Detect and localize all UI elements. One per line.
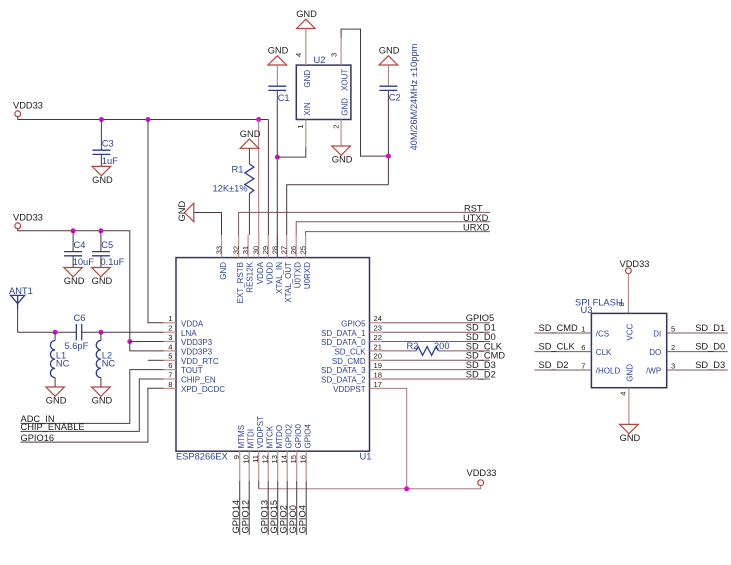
node junction VDDPST rail bbox=[404, 486, 409, 491]
wire net SD_D2 bbox=[382, 378, 490, 380]
svg-text:/WP: /WP bbox=[646, 366, 661, 375]
ground GND above R1 bbox=[240, 129, 261, 149]
svg-text:SD_CMD: SD_CMD bbox=[539, 323, 579, 333]
svg-text:12: 12 bbox=[261, 455, 270, 463]
pin 29 VDDD (U1 top) bbox=[261, 235, 275, 285]
wire VDDA riser to pin 1 bbox=[148, 120, 164, 323]
svg-text:VDDD: VDDD bbox=[266, 262, 275, 285]
svg-text:MTDI: MTDI bbox=[247, 429, 256, 449]
svg-text:XPD_DCDC: XPD_DCDC bbox=[181, 385, 225, 394]
svg-text:GND: GND bbox=[92, 396, 113, 406]
svg-text:CHIP_ENABLE: CHIP_ENABLE bbox=[21, 422, 85, 432]
svg-text:10: 10 bbox=[242, 455, 251, 463]
power port VDD33 (bottom) bbox=[467, 468, 497, 485]
wire VDD_RTC stub pin 5 bbox=[148, 359, 164, 361]
svg-text:ESP8266EX: ESP8266EX bbox=[176, 452, 228, 462]
capacitor C2 bbox=[379, 65, 400, 185]
svg-text:16: 16 bbox=[299, 455, 308, 463]
svg-text:GND: GND bbox=[625, 364, 634, 382]
svg-text:SD_DATA_0: SD_DATA_0 bbox=[321, 338, 366, 347]
inductor L2 bbox=[96, 332, 115, 387]
pin 1 XIN (U2 bottom-left) bbox=[296, 102, 312, 147]
pin 3 /WP (U3 right), net SD_D3 bbox=[646, 360, 728, 376]
wire VDD3P3 drop to pin 4 bbox=[130, 342, 164, 351]
pin 7 /HOLD (U3 left), net SD_D2 bbox=[535, 360, 621, 376]
svg-text:11: 11 bbox=[251, 455, 260, 463]
svg-text:2: 2 bbox=[168, 324, 172, 333]
wire pin 11 drop to rail bbox=[258, 481, 260, 489]
svg-text:XIN: XIN bbox=[303, 102, 312, 116]
svg-text:U0RXD: U0RXD bbox=[303, 262, 312, 289]
wire net GPIO4 bbox=[305, 481, 307, 535]
wire riser to pin 30 bbox=[258, 120, 260, 236]
wire XOUT jog to C2 bbox=[341, 29, 388, 156]
wire net SD_CMD bbox=[382, 359, 490, 361]
ground GND below U2 pin 2 bbox=[332, 146, 353, 165]
svg-text:GPIO2: GPIO2 bbox=[285, 423, 294, 448]
svg-text:/HOLD: /HOLD bbox=[596, 366, 621, 375]
svg-text:21: 21 bbox=[374, 342, 382, 351]
svg-text:SD_CMD: SD_CMD bbox=[332, 357, 366, 366]
resistor R1 12K bbox=[213, 148, 254, 235]
capacitor C4 bbox=[64, 231, 94, 268]
svg-text:8: 8 bbox=[617, 302, 626, 306]
svg-text:EXT_RSTB: EXT_RSTB bbox=[236, 262, 245, 303]
wire C2 to XTAL_OUT pin 27 bbox=[287, 185, 389, 235]
svg-text:CHIP_EN: CHIP_EN bbox=[181, 376, 216, 385]
svg-text:4: 4 bbox=[294, 53, 303, 57]
wire VDD33 to U3 VCC bbox=[627, 274, 629, 314]
svg-text:VCC: VCC bbox=[625, 323, 634, 340]
svg-text:GND: GND bbox=[340, 98, 349, 116]
pin 15 GPIO0 (U1 bottom) bbox=[289, 423, 303, 481]
svg-text:GPIO14: GPIO14 bbox=[231, 500, 241, 534]
svg-text:26: 26 bbox=[289, 246, 298, 254]
wire net GPIO12 bbox=[248, 481, 250, 535]
wire net SD_D1 bbox=[382, 331, 490, 333]
svg-text:R1: R1 bbox=[232, 165, 244, 175]
node junction VDDA riser tap bbox=[146, 117, 151, 122]
svg-text:C1: C1 bbox=[278, 93, 290, 103]
pin 33 GND (U1 top) bbox=[215, 235, 229, 280]
svg-text:29: 29 bbox=[261, 246, 270, 254]
pin 11 VDDPST (U1 bottom) bbox=[251, 416, 265, 481]
svg-text:13: 13 bbox=[270, 455, 279, 463]
pin 2 LNA (U1 left) bbox=[164, 324, 198, 338]
wire VDDPST bottom rail bbox=[259, 486, 481, 489]
inductor L1 bbox=[50, 332, 69, 387]
svg-text:SD_D3: SD_D3 bbox=[695, 360, 725, 370]
svg-text:C4: C4 bbox=[74, 240, 86, 250]
svg-text:12K±1%: 12K±1% bbox=[213, 183, 248, 193]
svg-text:GND: GND bbox=[379, 46, 400, 56]
node junction C2/XOUT bbox=[386, 154, 391, 159]
svg-text:MTMS: MTMS bbox=[237, 425, 246, 449]
svg-text:VDD_RTC: VDD_RTC bbox=[181, 357, 219, 366]
svg-text:SD_DATA_3: SD_DATA_3 bbox=[321, 366, 366, 375]
svg-text:GPIO16: GPIO16 bbox=[21, 433, 55, 443]
svg-text:GND: GND bbox=[92, 175, 113, 185]
pin 7 CHIP_EN (U1 left) bbox=[164, 370, 216, 384]
wire net GPIO0 bbox=[296, 481, 298, 535]
svg-text:7: 7 bbox=[581, 361, 585, 370]
svg-text:VDD3P3: VDD3P3 bbox=[181, 338, 213, 347]
svg-text:VDD33: VDD33 bbox=[13, 100, 43, 110]
svg-text:NC: NC bbox=[102, 359, 116, 369]
pin 32 EXT_RSTB (U1 top) bbox=[232, 235, 246, 303]
pin 2 DO (U3 right), net SD_D0 bbox=[649, 341, 728, 357]
svg-text:2: 2 bbox=[671, 343, 675, 352]
wire pin 26 UTXD riser bbox=[296, 222, 490, 235]
pin 30 VDDA (U1 top) bbox=[252, 235, 266, 284]
svg-text:6: 6 bbox=[581, 343, 585, 352]
svg-text:32: 32 bbox=[232, 246, 241, 254]
svg-text:CLK: CLK bbox=[596, 348, 612, 357]
pin 4 GND (U2 top-left) bbox=[294, 29, 312, 88]
svg-text:U1: U1 bbox=[360, 452, 372, 462]
svg-text:GND: GND bbox=[303, 70, 312, 88]
pin 19 SD_DATA_3 (U1 right) bbox=[321, 361, 382, 375]
pin 8 VCC (U3 top) bbox=[617, 302, 634, 340]
svg-text:28: 28 bbox=[270, 246, 279, 254]
antenna ANT1 bbox=[9, 286, 33, 309]
svg-text:VDDPST: VDDPST bbox=[333, 385, 366, 394]
svg-text:27: 27 bbox=[280, 246, 289, 254]
svg-text:GPIO0: GPIO0 bbox=[288, 505, 298, 533]
svg-text:VDD33: VDD33 bbox=[467, 468, 497, 478]
svg-text:SD_D2: SD_D2 bbox=[539, 360, 569, 370]
pin 23 SD_DATA_1 (U1 right) bbox=[321, 324, 382, 338]
pin 13 MTDO (U1 bottom) bbox=[270, 425, 284, 481]
op-amp U3 SPI FLASH body bbox=[575, 297, 667, 387]
ground GND (left-pointing, pin 33) bbox=[177, 201, 194, 222]
ground GND below U3 bbox=[620, 424, 641, 443]
pin 4 VDD3P3 (U1 left) bbox=[164, 342, 213, 356]
wire XIN to C1 bbox=[277, 147, 306, 157]
svg-text:17: 17 bbox=[374, 380, 382, 389]
svg-text:25: 25 bbox=[299, 246, 308, 254]
svg-text:GND: GND bbox=[46, 396, 67, 406]
pin 6 TOUT (U1 left) bbox=[164, 361, 203, 375]
capacitor C3 bbox=[92, 120, 118, 167]
svg-text:GND: GND bbox=[240, 129, 261, 139]
node junction C4 tap bbox=[71, 228, 76, 233]
svg-text:1: 1 bbox=[296, 125, 305, 129]
capacitor C1 bbox=[268, 65, 289, 258]
svg-text:MTDO: MTDO bbox=[275, 425, 284, 449]
node junction C5 tap bbox=[98, 228, 103, 233]
net GPIO16 bbox=[21, 388, 164, 443]
svg-text:5: 5 bbox=[671, 324, 675, 333]
pin 18 SD_DATA_2 (U1 right) bbox=[321, 370, 382, 384]
svg-text:TOUT: TOUT bbox=[181, 366, 203, 375]
svg-text:6: 6 bbox=[168, 361, 172, 370]
svg-text:GPIO4: GPIO4 bbox=[304, 423, 313, 448]
pin 3 VDD3P3 (U1 left) bbox=[164, 333, 213, 347]
pin 31 RES12K (U1 top) bbox=[241, 235, 255, 293]
node junction pin3 tap bbox=[127, 339, 132, 344]
svg-text:5: 5 bbox=[168, 352, 172, 361]
wire VDD33 left rail bbox=[18, 229, 130, 342]
svg-text:U2: U2 bbox=[314, 55, 326, 65]
svg-text:24: 24 bbox=[374, 314, 382, 323]
wire net GPIO5 bbox=[382, 322, 490, 324]
ground GND below L2 bbox=[92, 387, 113, 406]
svg-text:VDDA: VDDA bbox=[256, 261, 265, 284]
svg-text:GND: GND bbox=[268, 46, 289, 56]
pin 3 XOUT (U2 top-right) bbox=[329, 38, 349, 91]
pin 24 GPIO5 (U1 right) bbox=[341, 314, 382, 328]
svg-text:0.1uF: 0.1uF bbox=[101, 257, 125, 267]
svg-text:C6: C6 bbox=[74, 313, 86, 323]
svg-text:SD_DATA_1: SD_DATA_1 bbox=[321, 329, 366, 338]
svg-text:3: 3 bbox=[329, 53, 338, 57]
svg-text:GPIO2: GPIO2 bbox=[278, 505, 288, 533]
svg-text:8: 8 bbox=[168, 380, 172, 389]
crystal U2 body bbox=[296, 55, 351, 120]
ground GND below C3 bbox=[92, 166, 113, 185]
svg-text:4: 4 bbox=[168, 342, 172, 351]
svg-text:MTCK: MTCK bbox=[266, 425, 275, 448]
svg-text:30: 30 bbox=[252, 246, 261, 254]
pin 4 GND (U3 bottom) bbox=[619, 364, 635, 425]
pin 9 MTMS (U1 bottom) bbox=[232, 425, 246, 481]
svg-text:SD_CLK: SD_CLK bbox=[539, 341, 576, 351]
svg-text:C2: C2 bbox=[389, 93, 401, 103]
svg-text:31: 31 bbox=[241, 246, 250, 254]
pin 28 XTAL_IN (U1 top) bbox=[270, 235, 284, 294]
power port VDD33 (left) bbox=[13, 212, 43, 228]
ground GND below C4 bbox=[64, 268, 85, 287]
svg-text:ANT1: ANT1 bbox=[9, 286, 33, 296]
svg-text:RES12K: RES12K bbox=[246, 261, 255, 292]
svg-text:GPIO13: GPIO13 bbox=[259, 500, 269, 534]
svg-text:R2: R2 bbox=[407, 341, 419, 351]
pin 22 SD_DATA_0 (U1 right) bbox=[321, 333, 382, 347]
svg-text:GPIO12: GPIO12 bbox=[240, 500, 250, 534]
svg-text:GND: GND bbox=[92, 276, 113, 286]
svg-text:22: 22 bbox=[374, 333, 382, 342]
pin 27 XTAL_OUT (U1 top) bbox=[280, 235, 294, 303]
node junction L1 tap bbox=[53, 330, 58, 335]
svg-text:GPIO5: GPIO5 bbox=[341, 319, 366, 328]
svg-text:1: 1 bbox=[168, 314, 172, 323]
wire riser to pin 29 bbox=[267, 120, 269, 236]
node junction C1/XIN bbox=[275, 155, 280, 160]
wire net GPIO14 bbox=[239, 481, 241, 535]
resistor R2 200 bbox=[416, 347, 439, 356]
svg-text:DO: DO bbox=[649, 348, 661, 357]
capacitor C5 bbox=[92, 231, 125, 268]
svg-text:SD_D2: SD_D2 bbox=[466, 369, 496, 379]
svg-text:23: 23 bbox=[374, 324, 382, 333]
node junction C3 tap bbox=[99, 117, 104, 122]
wire VDDPST pin 17 to rail bbox=[382, 388, 407, 488]
svg-text:33: 33 bbox=[215, 246, 224, 254]
ground GND below C5 bbox=[92, 268, 113, 287]
svg-text:GND: GND bbox=[620, 433, 641, 443]
wire net GPIO13 bbox=[267, 481, 269, 535]
svg-text:URXD: URXD bbox=[463, 223, 490, 233]
svg-text:DI: DI bbox=[653, 329, 661, 338]
pin 6 CLK (U3 left), net SD_CLK bbox=[535, 341, 613, 357]
svg-text:40M/26M/24MHz ±10ppm: 40M/26M/24MHz ±10ppm bbox=[409, 43, 419, 150]
svg-text:10uF: 10uF bbox=[73, 257, 95, 267]
pin 5 VDD_RTC (U1 left) bbox=[164, 352, 219, 366]
svg-text:GPIO0: GPIO0 bbox=[294, 423, 303, 448]
svg-text:C3: C3 bbox=[102, 138, 114, 148]
pin 26 U0TXD (U1 top) bbox=[289, 235, 303, 288]
wire VDD33 top rail bbox=[18, 117, 269, 120]
svg-text:GND: GND bbox=[296, 9, 317, 19]
svg-text:SD_CLK: SD_CLK bbox=[334, 348, 366, 357]
pin 20 SD_CMD (U1 right) bbox=[332, 352, 382, 366]
svg-text:15: 15 bbox=[289, 455, 298, 463]
power port VDD33 (top left) bbox=[13, 100, 43, 116]
pin 16 GPIO4 (U1 bottom) bbox=[299, 423, 313, 481]
pin 8 XPD_DCDC (U1 left) bbox=[164, 380, 226, 394]
svg-text:20: 20 bbox=[374, 352, 382, 361]
pin 25 U0RXD (U1 top) bbox=[299, 235, 313, 289]
wire pin 25 URXD riser bbox=[306, 232, 490, 235]
svg-text:GND: GND bbox=[332, 155, 353, 165]
ground GND below L1 bbox=[46, 387, 67, 406]
svg-text:GND: GND bbox=[177, 201, 187, 222]
svg-text:SD_DATA_2: SD_DATA_2 bbox=[321, 376, 366, 385]
svg-text:1uF: 1uF bbox=[102, 156, 118, 166]
wire net SD_D3 bbox=[382, 369, 490, 371]
wire GND to pin 33 bbox=[194, 213, 222, 236]
svg-text:1: 1 bbox=[581, 324, 585, 333]
svg-text:C5: C5 bbox=[101, 240, 113, 250]
svg-text:XOUT: XOUT bbox=[340, 69, 349, 91]
svg-text:7: 7 bbox=[168, 370, 172, 379]
svg-text:VDD33: VDD33 bbox=[13, 212, 43, 222]
svg-text:LNA: LNA bbox=[181, 329, 197, 338]
capacitor C6 bbox=[65, 313, 89, 351]
svg-text:VDDPST: VDDPST bbox=[256, 416, 265, 449]
wire net GPIO15 bbox=[277, 481, 279, 535]
power port VDD33 (U3) bbox=[620, 259, 650, 274]
op-amp U1 ESP8266EX body bbox=[176, 258, 371, 462]
net ADC_IN bbox=[21, 370, 164, 425]
svg-text:200: 200 bbox=[434, 341, 450, 351]
svg-text:U0TXD: U0TXD bbox=[294, 262, 303, 288]
svg-text:SD_D0: SD_D0 bbox=[695, 341, 725, 351]
node junction pin30 riser tap bbox=[256, 117, 261, 122]
svg-text:9: 9 bbox=[232, 455, 241, 459]
svg-text:UTXD: UTXD bbox=[463, 213, 489, 223]
pin 5 DI (U3 right), net SD_D1 bbox=[653, 323, 728, 339]
node junction L2/C6 tap bbox=[98, 330, 103, 335]
pin 2 GND (U2 bottom-right) bbox=[331, 98, 349, 146]
wire ANT1 feed to LNA pin 2 bbox=[18, 309, 76, 332]
svg-text:3: 3 bbox=[671, 361, 675, 370]
svg-text:5.6pF: 5.6pF bbox=[65, 341, 89, 351]
wire VDD3P3 to pin 3 bbox=[130, 341, 164, 343]
svg-text:VDD3P3: VDD3P3 bbox=[181, 348, 213, 357]
svg-text:U3: U3 bbox=[581, 305, 593, 315]
svg-text:GND: GND bbox=[64, 276, 85, 286]
svg-text:GND: GND bbox=[219, 262, 228, 280]
svg-text:SD_D1: SD_D1 bbox=[695, 323, 725, 333]
svg-text:3: 3 bbox=[168, 333, 172, 342]
svg-text:14: 14 bbox=[280, 455, 289, 463]
wire net GPIO2 bbox=[286, 481, 288, 535]
svg-text:GPIO15: GPIO15 bbox=[269, 500, 279, 534]
pin 21 SD_CLK (U1 right) bbox=[334, 342, 382, 356]
svg-text:XTAL_IN: XTAL_IN bbox=[275, 262, 284, 294]
svg-text:XTAL_OUT: XTAL_OUT bbox=[284, 262, 293, 303]
pin 14 GPIO2 (U1 bottom) bbox=[280, 423, 294, 481]
net CHIP_ENABLE bbox=[21, 379, 164, 432]
pin 1 /CS (U3 left), net SD_CMD bbox=[535, 323, 610, 339]
pin 10 MTDI (U1 bottom) bbox=[242, 429, 256, 481]
svg-text:VDDA: VDDA bbox=[181, 319, 204, 328]
wire pin 32 RST riser bbox=[239, 212, 490, 235]
pin 17 VDDPST (U1 right) bbox=[333, 380, 382, 394]
wire SD_CLK with resistor R2 bbox=[382, 341, 490, 355]
wire net SD_D0 bbox=[382, 341, 490, 343]
pin 1 VDDA (U1 left) bbox=[164, 314, 204, 328]
ground GND above U2 pin 4 bbox=[296, 9, 317, 29]
svg-text:4: 4 bbox=[619, 392, 628, 396]
ground GND above C2 bbox=[379, 46, 400, 66]
svg-text:19: 19 bbox=[374, 361, 382, 370]
svg-text:18: 18 bbox=[374, 370, 382, 379]
svg-text:VDD33: VDD33 bbox=[620, 259, 650, 269]
svg-text:/CS: /CS bbox=[596, 329, 609, 338]
svg-text:2: 2 bbox=[331, 125, 340, 129]
svg-text:NC: NC bbox=[56, 359, 70, 369]
ground GND above C1 bbox=[268, 46, 289, 66]
svg-text:GPIO4: GPIO4 bbox=[297, 505, 307, 533]
pin 12 MTCK (U1 bottom) bbox=[261, 425, 275, 481]
